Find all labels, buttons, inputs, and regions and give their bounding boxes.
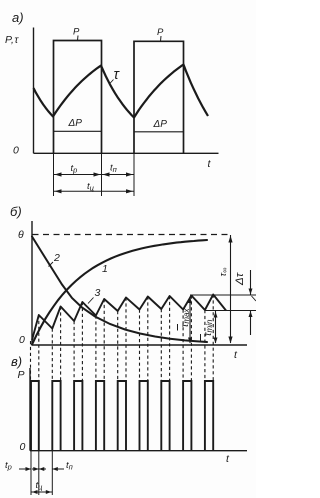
label tau_max rotated [179, 307, 191, 327]
dashed vertical guide lines at pulse edges [30, 341, 32, 381]
svg-text:а): а) [12, 10, 24, 25]
extension line below v pulse1 left edge [30, 451, 32, 495]
y-axis of plot v [29, 368, 31, 451]
svg-text:в): в) [11, 354, 22, 369]
power pulse 1 in plot v [31, 381, 39, 451]
svg-text:P: P [18, 369, 25, 381]
dimension tau_max (double arrow) [189, 297, 191, 344]
dimension t_pause of plot a [102, 174, 135, 176]
delta-P level line in pulse 1 [54, 130, 102, 132]
tau_min level tick line [205, 310, 256, 312]
svg-text:tп: tп [110, 163, 117, 175]
leader tick at delta-tau upper arrow [252, 296, 257, 301]
power pulse 3 in plot v [74, 381, 82, 451]
y-axis of plot b [31, 221, 33, 345]
overline of tau_min [200, 334, 202, 341]
curve 2 (falling exponential) [32, 237, 207, 343]
svg-text:tц: tц [36, 480, 44, 492]
extension line below pulse1 right edge [101, 153, 103, 196]
extension line below pulse2 left edge [133, 153, 135, 196]
svg-text:ΔP: ΔP [153, 119, 168, 130]
svg-text:ΔP: ΔP [68, 118, 83, 129]
x-axis of plot a [34, 152, 219, 154]
tau_max level tick line [190, 294, 256, 296]
svg-text:б): б) [10, 204, 22, 219]
x-axis of plot b [32, 344, 247, 346]
dimension delta-tau upper arrow [250, 270, 252, 295]
extension line below v pulse2 left edge [51, 451, 53, 495]
curve 1 (rising exponential) [32, 240, 207, 345]
power pulse 7 in plot v [161, 381, 169, 451]
x-axis of plot v [30, 450, 247, 452]
delta-P level line in pulse 2 [134, 131, 184, 133]
y-axis of plot a [33, 28, 35, 154]
svg-text:tц: tц [87, 181, 95, 193]
power pulse 2 in plot v [52, 381, 60, 451]
svg-text:τ∞: τ∞ [218, 268, 229, 277]
overline of tau_max [177, 324, 179, 331]
svg-text:1: 1 [102, 263, 108, 275]
svg-text:θ: θ [18, 229, 24, 241]
label tau_min rotated [202, 319, 214, 336]
pulse P1 rectangle [54, 41, 102, 154]
dimension delta-tau lower arrow [250, 311, 252, 335]
power pulse 5 in plot v [118, 381, 126, 451]
svg-text:P,τ: P,τ [5, 34, 19, 46]
dimension tau_min (double arrow) [215, 311, 217, 343]
power pulse 4 in plot v [96, 381, 104, 451]
curve 3 sawtooth (surface temperature) [32, 295, 226, 341]
svg-text:tр: tр [71, 163, 78, 175]
svg-text:Δτ: Δτ [234, 272, 246, 286]
svg-text:0: 0 [19, 334, 25, 346]
svg-text:0: 0 [13, 145, 19, 157]
svg-text:tп: tп [66, 460, 73, 472]
power pulse 6 in plot v [140, 381, 148, 451]
svg-text:P: P [73, 27, 80, 38]
dimension t_cycle of plot v [31, 491, 52, 493]
label delta-tau rotated [234, 272, 246, 286]
temperature curve tau in plot a [34, 65, 209, 118]
svg-text:2: 2 [53, 252, 60, 264]
svg-text:0: 0 [20, 441, 26, 453]
svg-text:3: 3 [95, 287, 101, 299]
svg-text:tр: tр [5, 460, 12, 472]
dashed steady-state theta level line [33, 234, 231, 236]
extension line below pulse1 left edge [53, 153, 55, 196]
dimension t_p of plot v (external arrows) [19, 468, 31, 470]
dimension tau_infinity (double arrow from axis to theta line) [230, 235, 232, 343]
power pulse 8 in plot v [183, 381, 191, 451]
dimension t_cycle of plot a [54, 190, 135, 192]
extension line below v pulse1 right edge [38, 451, 40, 495]
power pulse 9 in plot v [205, 381, 213, 451]
dimension t_p (pulse duration) of plot a [54, 174, 102, 176]
pulse P2 rectangle [134, 41, 184, 153]
label tau_infinity rotated [218, 268, 229, 277]
dimension t_pause of plot v (external arrows) [39, 468, 46, 470]
